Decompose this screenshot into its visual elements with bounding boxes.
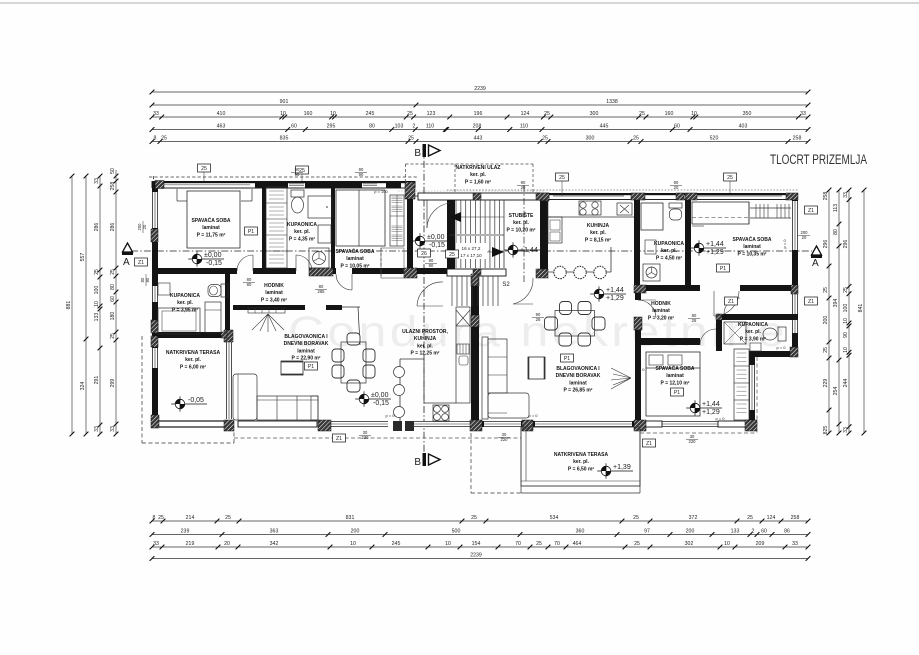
svg-text:P = 22,90 m²: P = 22,90 m² xyxy=(292,356,321,362)
wall bedroom 12,10 north xyxy=(641,338,700,345)
svg-text:103: 103 xyxy=(395,124,404,130)
svg-text:10: 10 xyxy=(445,541,451,547)
svg-text:ker. pl.: ker. pl. xyxy=(513,220,529,226)
svg-text:80: 80 xyxy=(369,124,375,130)
svg-text:110: 110 xyxy=(426,124,434,130)
svg-text:10: 10 xyxy=(843,347,849,353)
svg-text:P1: P1 xyxy=(720,266,726,272)
stove right apt xyxy=(579,201,601,215)
svg-text:25: 25 xyxy=(161,136,167,142)
shelf line bedroom 10,35 xyxy=(748,202,750,224)
pillar top right corner xyxy=(786,193,798,200)
dimension column left 1 (881) xyxy=(71,176,73,434)
svg-text:33: 33 xyxy=(94,426,100,432)
elevation marker vestibule xyxy=(411,240,447,242)
hanger rail bedroom 10,35 xyxy=(750,207,791,209)
svg-text:P = 3,20 m²: P = 3,20 m² xyxy=(648,315,675,321)
shower bathroom 4,35 xyxy=(308,196,332,218)
svg-text:123: 123 xyxy=(427,111,436,117)
ref P1 bedroom1 xyxy=(245,227,258,235)
wall stair west xyxy=(447,200,455,270)
ref P1 living right xyxy=(561,354,574,362)
svg-text:Z1: Z1 xyxy=(336,436,342,442)
terrace center outer line xyxy=(639,427,641,493)
leader ref 25 c xyxy=(561,181,563,196)
wall stair top white band xyxy=(418,193,540,200)
svg-text:200: 200 xyxy=(823,316,829,325)
svg-text:10: 10 xyxy=(843,318,849,324)
svg-text:P = 3,90 m²: P = 3,90 m² xyxy=(740,336,767,342)
svg-text:p = 0: p = 0 xyxy=(776,345,786,350)
window right wall bath 3,90 xyxy=(792,294,798,333)
svg-text:8: 8 xyxy=(153,515,156,521)
wardrobe bedroom2 xyxy=(390,195,404,246)
pillar bath 3,90 NW xyxy=(716,314,722,320)
svg-text:90: 90 xyxy=(843,332,849,338)
svg-text:300: 300 xyxy=(590,111,599,117)
svg-text:+1,44: +1,44 xyxy=(606,287,624,294)
svg-text:258: 258 xyxy=(110,182,116,191)
ref 25 top c xyxy=(556,173,569,181)
wall bath 3,90 north xyxy=(716,314,798,320)
svg-text:25: 25 xyxy=(823,347,829,353)
svg-text:154: 154 xyxy=(472,541,481,547)
svg-text:60: 60 xyxy=(761,529,767,535)
sink bathroom 3,90 xyxy=(750,343,761,351)
wall top solid bedroom2 end xyxy=(386,181,401,188)
svg-text:25: 25 xyxy=(634,541,640,547)
svg-text:372: 372 xyxy=(689,515,698,521)
svg-text:25: 25 xyxy=(633,136,639,142)
svg-text:463: 463 xyxy=(217,124,226,130)
svg-text:p = 0: p = 0 xyxy=(782,239,787,249)
wall top exterior left apt band xyxy=(152,181,415,183)
svg-text:p = 0: p = 0 xyxy=(385,413,395,418)
svg-text:25: 25 xyxy=(449,252,455,258)
svg-text:196: 196 xyxy=(474,111,483,117)
toilet bathroom 4,35 xyxy=(291,190,304,197)
svg-text:+1,44: +1,44 xyxy=(702,401,720,408)
pillar hodnik2 a xyxy=(634,285,646,293)
svg-text:KUPAONICA: KUPAONICA xyxy=(654,241,684,247)
leader ref 25 b xyxy=(301,174,303,181)
svg-text:SPAVAĆA SOBA: SPAVAĆA SOBA xyxy=(656,364,695,372)
svg-text:296: 296 xyxy=(843,240,849,249)
svg-text:ker. pl.: ker. pl. xyxy=(417,343,433,349)
window bottom living right (slider) xyxy=(535,421,632,427)
svg-text:113: 113 xyxy=(833,204,839,212)
toilet bathroom 3,90 xyxy=(778,327,786,341)
svg-text:901: 901 xyxy=(280,99,289,105)
dimension row top 3 xyxy=(152,116,808,118)
canopy dotted line right xyxy=(447,189,798,191)
svg-text:244: 244 xyxy=(843,379,849,388)
elevation marker kitchen right xyxy=(590,293,626,295)
wall step south of bath 3,90 xyxy=(754,351,798,357)
terrace center dashed left xyxy=(470,433,472,493)
svg-text:ker. pl.: ker. pl. xyxy=(177,300,193,306)
washing machine bathroom 4,35 xyxy=(309,248,329,268)
svg-text:20: 20 xyxy=(224,541,230,547)
dimension row top 5 xyxy=(152,141,808,143)
svg-text:laminat: laminat xyxy=(666,373,684,379)
svg-text:25: 25 xyxy=(559,175,565,181)
pillar central a xyxy=(471,274,479,286)
dimension row top 2 (901/1338) xyxy=(152,104,808,106)
svg-text:+1,29: +1,29 xyxy=(702,409,720,416)
ref 25 top a xyxy=(198,164,211,172)
svg-text:10: 10 xyxy=(350,541,356,547)
terrace center outline xyxy=(521,427,640,486)
window bottom living left (slider) xyxy=(234,421,318,427)
svg-text:25: 25 xyxy=(542,136,548,142)
svg-text:25: 25 xyxy=(633,515,639,521)
svg-text:180: 180 xyxy=(110,312,116,321)
pillar vestibule SW xyxy=(404,268,417,278)
nightstand right bedroom1 xyxy=(251,189,253,201)
svg-text:-0,15: -0,15 xyxy=(429,242,445,249)
svg-text:P = 3,95 m²: P = 3,95 m² xyxy=(172,307,199,313)
svg-text:B: B xyxy=(414,148,421,159)
svg-text:443: 443 xyxy=(474,136,483,142)
svg-text:86: 86 xyxy=(784,529,790,535)
window top wall bedroom 10,35 xyxy=(688,195,782,197)
svg-text:NATKRIVENI ULAZ: NATKRIVENI ULAZ xyxy=(456,165,501,171)
leader ref 25 d xyxy=(729,181,731,193)
svg-text:10: 10 xyxy=(94,301,100,307)
pillar left wall a xyxy=(151,229,158,242)
wardrobe bedroom1 xyxy=(266,187,287,268)
svg-text:33: 33 xyxy=(153,111,159,117)
fridge right apt xyxy=(617,203,632,215)
ref P1 bedroom 10,35 xyxy=(717,264,730,272)
wall bedroom1 east xyxy=(262,184,266,271)
svg-text:laminat: laminat xyxy=(346,256,364,262)
elevation marker terrace center xyxy=(597,470,633,472)
wall hodnik south xyxy=(233,305,305,310)
scan edge line top xyxy=(0,2,919,4)
svg-text:831: 831 xyxy=(346,515,355,521)
svg-text:80: 80 xyxy=(833,229,839,235)
coffee table living right xyxy=(528,357,545,379)
door gap bedroom2 xyxy=(336,268,352,274)
svg-text:534: 534 xyxy=(550,515,559,521)
svg-text:342: 342 xyxy=(270,541,279,547)
svg-text:KUPAONICA: KUPAONICA xyxy=(287,222,317,228)
bar stools right apt xyxy=(554,266,566,278)
washing machine bathroom 4,50 xyxy=(643,264,660,281)
svg-text:25: 25 xyxy=(94,269,100,275)
wall stair east xyxy=(540,193,548,274)
door bedroom1 xyxy=(237,255,253,271)
svg-text:10: 10 xyxy=(691,111,697,117)
door gap bathroom 4,35 xyxy=(296,268,312,274)
sofa living left xyxy=(233,374,257,420)
svg-text:25: 25 xyxy=(110,269,116,275)
overhang dashed line left xyxy=(234,437,521,439)
pillar bath1 SE xyxy=(221,332,227,338)
svg-text:33: 33 xyxy=(110,426,116,432)
wall bathroom 4,35 east xyxy=(331,184,335,271)
svg-text:25: 25 xyxy=(225,515,231,521)
wall left exterior xyxy=(152,182,158,425)
svg-text:p = 0: p = 0 xyxy=(715,416,725,421)
svg-text:P = 6,00 m²: P = 6,00 m² xyxy=(180,364,207,370)
wall bathroom 3,95 south xyxy=(152,332,227,338)
wall kitchen east xyxy=(634,199,640,288)
wall bottom terrace left thin xyxy=(152,420,224,422)
dimension row top 4 xyxy=(152,129,808,131)
svg-text:laminat: laminat xyxy=(652,308,670,314)
svg-text:219: 219 xyxy=(186,541,195,547)
wall top solid over bath2 xyxy=(305,181,362,188)
ref P1 living left xyxy=(305,362,318,370)
svg-text:110: 110 xyxy=(520,124,528,130)
closet bedroom 10,35 xyxy=(692,202,749,224)
shower bathroom 3,90 xyxy=(724,322,746,344)
entrance threshold xyxy=(415,195,447,197)
svg-text:160: 160 xyxy=(665,111,674,117)
svg-text:881: 881 xyxy=(66,301,72,310)
svg-text:ULAZNI PROSTOR,: ULAZNI PROSTOR, xyxy=(402,329,448,335)
bar stools left apt xyxy=(394,367,405,378)
svg-text:209: 209 xyxy=(756,541,765,547)
pillar bottom right corner xyxy=(745,420,757,431)
sink bathroom 4,35 xyxy=(318,225,331,243)
svg-text:p = 100: p = 100 xyxy=(374,189,388,194)
svg-text:124: 124 xyxy=(521,111,530,117)
svg-text:300: 300 xyxy=(586,136,595,142)
sink bathroom 3,95 xyxy=(158,283,170,295)
svg-text:239: 239 xyxy=(181,529,190,535)
window vent over bath xyxy=(289,182,304,184)
svg-text:286: 286 xyxy=(110,223,116,232)
svg-text:25: 25 xyxy=(110,333,116,339)
svg-text:33: 33 xyxy=(800,111,806,117)
svg-text:258: 258 xyxy=(791,515,800,521)
svg-text:245: 245 xyxy=(366,111,375,117)
wall top exterior right part band xyxy=(447,193,798,195)
overhang dashed line right xyxy=(640,432,757,434)
svg-text:P = 4,35 m²: P = 4,35 m² xyxy=(289,236,316,242)
svg-text:33: 33 xyxy=(843,192,849,198)
dimension column left 3 xyxy=(99,176,101,434)
dashed cabinet bedroom2 xyxy=(381,248,404,278)
svg-text:200: 200 xyxy=(351,529,360,535)
svg-text:25: 25 xyxy=(471,515,477,521)
svg-text:laminat: laminat xyxy=(569,380,587,386)
pillar bottom b xyxy=(318,420,331,431)
window top wall kitchen xyxy=(553,195,624,197)
svg-text:P = 26,85 m²: P = 26,85 m² xyxy=(564,388,593,394)
pillar bedroom2 NE xyxy=(405,182,415,199)
svg-text:500: 500 xyxy=(452,529,461,535)
svg-text:133: 133 xyxy=(731,529,740,535)
wall right exterior upper xyxy=(792,199,798,357)
svg-text:-0,05: -0,05 xyxy=(188,397,204,404)
svg-text:100: 100 xyxy=(94,286,100,295)
terrace left outline dashed xyxy=(141,336,143,443)
svg-text:p = 0: p = 0 xyxy=(635,367,645,372)
canopy dashed line left xyxy=(149,176,418,178)
svg-text:25: 25 xyxy=(408,136,414,142)
svg-text:S2: S2 xyxy=(502,282,510,288)
wall bath 4,50 east xyxy=(685,199,691,291)
svg-text:8: 8 xyxy=(154,136,157,142)
svg-text:A: A xyxy=(123,257,130,268)
svg-text:33: 33 xyxy=(94,178,100,184)
wall right exterior lower xyxy=(749,351,755,427)
section line B xyxy=(423,148,425,460)
svg-text:25: 25 xyxy=(823,287,829,293)
window bottom ulaz xyxy=(484,421,521,427)
svg-text:DNEVNI BORAVAK: DNEVNI BORAVAK xyxy=(556,373,601,379)
dimension row bottom 2 xyxy=(152,534,808,536)
coffee table living left xyxy=(281,361,303,375)
wall top solid over bath xyxy=(255,181,288,188)
dining table left apt xyxy=(347,333,360,345)
door bath 4,50 xyxy=(714,291,739,316)
tv marks living right xyxy=(611,368,631,389)
dimension column right 3 xyxy=(848,190,850,433)
svg-text:464: 464 xyxy=(573,541,582,547)
svg-text:17 x 17,10: 17 x 17,10 xyxy=(460,253,482,258)
svg-text:124: 124 xyxy=(767,515,776,521)
svg-text:410: 410 xyxy=(217,111,226,117)
wall central dividing xyxy=(471,274,479,428)
svg-text:299: 299 xyxy=(110,379,116,388)
pillar top-left corner xyxy=(155,181,164,189)
svg-text:BLAGOVAONICA I: BLAGOVAONICA I xyxy=(556,366,600,372)
dimension row bottom 1 xyxy=(152,520,808,522)
svg-text:70: 70 xyxy=(554,541,560,547)
ref 25 top d xyxy=(724,173,737,181)
ref Z1 hodnik right xyxy=(725,297,738,305)
pillar top right mid-b xyxy=(676,193,684,200)
pillar hodnik wall a xyxy=(309,268,333,276)
svg-text:-0,15: -0,15 xyxy=(206,260,222,267)
svg-text:ker. pl.: ker. pl. xyxy=(590,230,606,236)
svg-text:214: 214 xyxy=(186,515,195,521)
svg-text:258: 258 xyxy=(823,192,829,201)
ref 26 vestibule xyxy=(418,249,431,257)
section line A xyxy=(131,250,812,252)
ref Z1 bottom right xyxy=(643,439,656,447)
svg-text:TLOCRT PRIZEMLJA: TLOCRT PRIZEMLJA xyxy=(770,152,867,167)
svg-text:394: 394 xyxy=(833,299,839,308)
svg-text:BLAGOVAONICA I: BLAGOVAONICA I xyxy=(284,334,328,340)
svg-text:10: 10 xyxy=(724,541,730,547)
kitchen island left apt xyxy=(399,359,401,421)
ref Z1 right wall a xyxy=(805,206,818,214)
svg-text:SPAVAĆA SOBA: SPAVAĆA SOBA xyxy=(733,235,772,243)
svg-text:33: 33 xyxy=(153,541,159,547)
section marker A right xyxy=(812,246,822,255)
svg-text:±0,00: ±0,00 xyxy=(204,252,222,259)
svg-text:p = 0: p = 0 xyxy=(528,413,538,418)
ref P1 bedroom 12,10 xyxy=(671,388,684,396)
svg-text:25: 25 xyxy=(158,515,164,521)
svg-text:25: 25 xyxy=(843,287,849,293)
bed bedroom2 xyxy=(336,190,385,246)
stairs label 16x27 xyxy=(456,243,487,259)
svg-text:NATKRIVENA TERASA: NATKRIVENA TERASA xyxy=(166,350,221,356)
door bedroom2 xyxy=(336,274,352,290)
svg-text:2239: 2239 xyxy=(474,86,486,92)
svg-text:ker. pl.: ker. pl. xyxy=(294,229,310,235)
svg-text:825: 825 xyxy=(823,426,829,435)
svg-text:P = 10,20 m²: P = 10,20 m² xyxy=(507,227,536,233)
svg-text:+1,44: +1,44 xyxy=(706,241,724,248)
bed bedroom1 xyxy=(187,191,240,248)
wall hodnik2 north/south span xyxy=(634,285,700,291)
kitchen tall unit left apt xyxy=(456,307,470,403)
ref Z1 left wall xyxy=(135,258,148,266)
stove left apt xyxy=(433,405,449,421)
svg-text:KUHINJA: KUHINJA xyxy=(587,223,610,229)
stairs main flights xyxy=(455,200,457,234)
elevation marker living left xyxy=(355,398,391,400)
svg-text:25: 25 xyxy=(544,111,550,117)
svg-text:10: 10 xyxy=(330,111,336,117)
svg-text:STUBIŠTE: STUBIŠTE xyxy=(509,211,534,219)
svg-text:200: 200 xyxy=(686,529,695,535)
svg-text:403: 403 xyxy=(739,124,748,130)
elevation marker bedroom 12,10 xyxy=(686,407,722,409)
svg-text:360: 360 xyxy=(576,529,585,535)
wall bedroom2 east xyxy=(407,184,413,278)
svg-text:Z1: Z1 xyxy=(138,260,144,266)
svg-text:P1: P1 xyxy=(308,364,314,370)
dimension column right 2 xyxy=(838,190,840,433)
svg-text:363: 363 xyxy=(270,529,279,535)
svg-text:laminat: laminat xyxy=(743,244,761,250)
kitchen counter bottom left apt xyxy=(424,402,456,404)
window left wall bedroom1 xyxy=(152,192,158,228)
pillar left wall b xyxy=(151,320,158,333)
svg-text:SPAVAĆA SOBA: SPAVAĆA SOBA xyxy=(192,216,231,224)
svg-text:2239: 2239 xyxy=(470,553,482,559)
svg-text:Z1: Z1 xyxy=(646,441,652,447)
svg-text:+1,29: +1,29 xyxy=(606,295,624,302)
pillar stair SE bottom xyxy=(536,269,548,278)
elevation marker terrace left xyxy=(171,403,207,405)
wall bottom exterior xyxy=(224,421,757,427)
svg-text:208: 208 xyxy=(473,124,482,130)
svg-text:ker. pl.: ker. pl. xyxy=(573,459,589,465)
svg-text:P = 6,50 m²: P = 6,50 m² xyxy=(568,466,595,472)
svg-text:286: 286 xyxy=(94,223,100,232)
toilet bathroom 3,95 xyxy=(221,284,228,297)
svg-text:80: 80 xyxy=(110,284,116,290)
pillar bottom e xyxy=(634,420,646,431)
svg-text:P = 4,50 m²: P = 4,50 m² xyxy=(656,255,683,261)
svg-text:laminat: laminat xyxy=(297,348,315,354)
dining table right apt xyxy=(560,302,572,315)
svg-text:445: 445 xyxy=(600,124,609,130)
svg-text:50: 50 xyxy=(110,168,116,174)
pillar top right a xyxy=(536,193,549,200)
pillar central b xyxy=(471,315,479,327)
tv marks living left xyxy=(252,314,284,332)
svg-text:26: 26 xyxy=(421,251,427,257)
porch entrance dashed xyxy=(406,163,534,165)
window left wall bathroom 3,95 xyxy=(152,348,158,368)
bathtub bathroom 3,95 xyxy=(158,308,200,334)
svg-text:835: 835 xyxy=(280,136,289,142)
pillar left wall terrace xyxy=(151,336,158,347)
window top wall bedroom1 xyxy=(164,184,250,186)
